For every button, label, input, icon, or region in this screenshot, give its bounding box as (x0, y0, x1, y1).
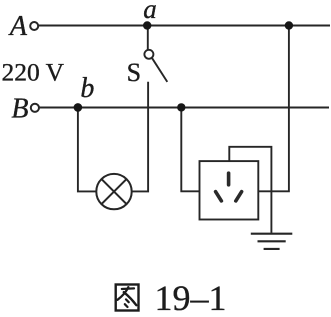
svg-text:19–1: 19–1 (155, 278, 227, 317)
terminal A (open circle) (30, 22, 38, 30)
switch S blade (open) (152, 58, 167, 82)
wire: node b down and right to lamp left (78, 108, 96, 192)
svg-text:b: b (80, 73, 94, 104)
junction dot on wire B above socket (177, 103, 185, 111)
wire: branch from node on A down then left to socket right terminal (258, 26, 289, 192)
node b (junction dot) (74, 103, 83, 112)
socket slots (216, 173, 242, 201)
switch S pivot circle (144, 50, 153, 59)
caption glyph 图 (drawn) (116, 285, 139, 311)
svg-text:a: a (143, 0, 157, 24)
wire B (second horizontal) (40, 107, 330, 109)
socket XS outline (200, 161, 259, 219)
wire: switch fixed contact down, crossing wire B, to lamp right (132, 82, 148, 192)
terminal B (open circle) (31, 104, 39, 112)
wire A (top horizontal) (39, 25, 330, 27)
wire: earth lead from socket top, up, right and down to ground (229, 147, 271, 233)
wire: switch feed from node a down to switch pivot (147, 26, 149, 50)
svg-text:B: B (11, 94, 28, 125)
ground symbol (251, 234, 292, 249)
svg-text:A: A (8, 11, 28, 42)
node a (junction dot) (143, 21, 151, 29)
svg-text:S: S (127, 58, 141, 87)
lamp EL (circle with X) (96, 174, 131, 209)
junction dot on wire A above right branch (285, 21, 293, 29)
wire: node on B down and right to socket left terminal (181, 108, 199, 192)
svg-text:220 V: 220 V (2, 58, 65, 87)
